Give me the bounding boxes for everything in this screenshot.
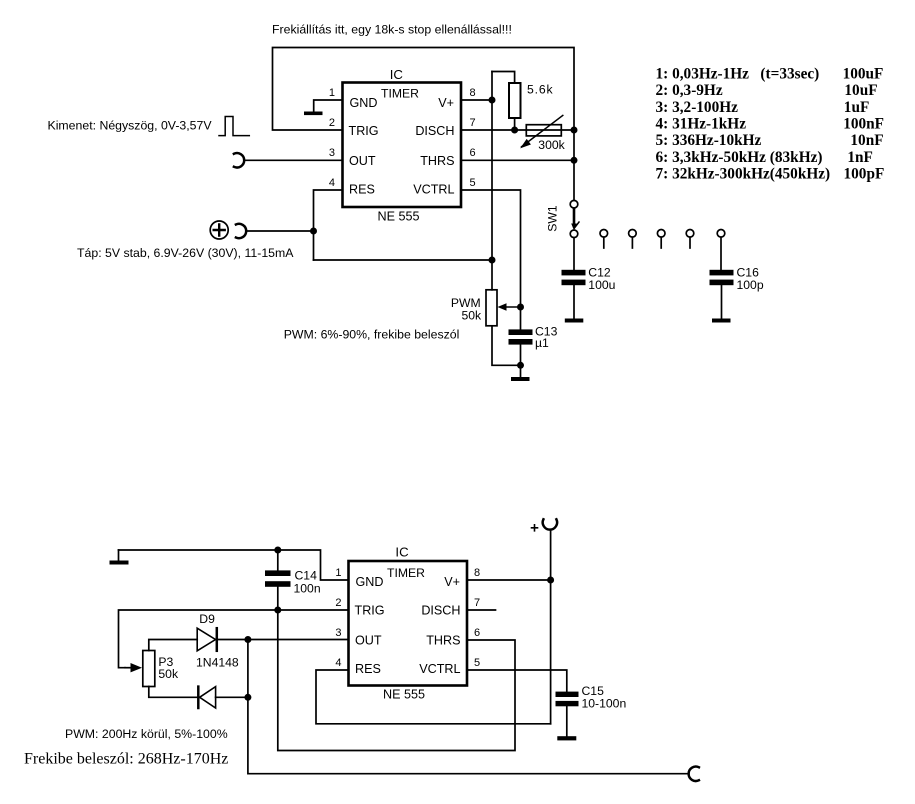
wire ground stub top-left <box>118 550 120 561</box>
svg-text:NE 555: NE 555 <box>377 210 419 224</box>
wire top rail to pin1 <box>119 550 349 580</box>
wire C16 to ground <box>721 285 723 318</box>
wire pin6 THRS to right column <box>461 159 574 161</box>
svg-text:DISCH: DISCH <box>421 604 460 618</box>
wire P3 top to D9 <box>149 640 197 651</box>
svg-text:5: 5 <box>470 177 476 189</box>
wire pad5 to C16 <box>720 237 722 270</box>
svg-text:100u: 100u <box>588 278 615 292</box>
svg-text:GND: GND <box>356 575 384 589</box>
junction V+ node <box>489 97 496 104</box>
svg-text:1: 1 <box>335 567 341 579</box>
svg-text:100pF: 100pF <box>844 166 885 183</box>
IC IC2 NE555 timer body (bottom) <box>349 561 468 686</box>
svg-text:RES: RES <box>355 662 381 676</box>
plus sign (supply) <box>532 525 538 531</box>
svg-text:VCTRL: VCTRL <box>413 183 454 197</box>
svg-text:10uF: 10uF <box>844 82 877 99</box>
ground C13 <box>511 377 530 381</box>
svg-text:100uF: 100uF <box>843 66 884 83</box>
connector pad row 3 <box>657 230 665 238</box>
diode D10 lower 1N4148 (pointing left) <box>197 687 200 708</box>
svg-text:NE 555: NE 555 <box>383 688 425 702</box>
svg-text:PWM: 6%-90%, frekibe beleszól: PWM: 6%-90%, frekibe beleszól <box>284 328 460 342</box>
potentiometer 300k body <box>526 125 561 136</box>
wire V+ column to PWM top <box>491 260 493 290</box>
svg-text:5: 336Hz-10kHz: 5: 336Hz-10kHz <box>656 132 762 149</box>
svg-text:8: 8 <box>470 87 476 99</box>
wire VCTRL column to C13 <box>520 307 522 329</box>
svg-text:µ1: µ1 <box>535 336 549 350</box>
svg-text:100n: 100n <box>294 581 321 595</box>
svg-text:4: 4 <box>329 177 335 189</box>
ground at pin1 <box>304 112 323 116</box>
svg-text:3: 3,2-100Hz: 3: 3,2-100Hz <box>656 99 739 116</box>
svg-text:D9: D9 <box>199 612 215 626</box>
junction V+ column bottom <box>489 257 496 264</box>
svg-text:V+: V+ <box>444 575 460 589</box>
svg-text:1N4148: 1N4148 <box>196 656 239 670</box>
junction TRIG node <box>274 607 281 614</box>
wire pin7 DISCH to right column <box>461 129 574 131</box>
connector bottom right (open left-half arc) <box>689 767 699 781</box>
svg-text:V+: V+ <box>438 96 454 110</box>
junction V+ node (bottom) <box>547 577 554 584</box>
svg-text:TIMER: TIMER <box>381 87 419 101</box>
svg-text:100p: 100p <box>737 278 764 292</box>
junction ground node <box>517 362 524 369</box>
svg-text:1: 0,03Hz-1Hz (t=33sec): 1: 0,03Hz-1Hz (t=33sec) <box>656 66 820 83</box>
svg-text:50k: 50k <box>461 309 482 323</box>
wire 5.6k bottom <box>514 118 516 130</box>
svg-text:IC: IC <box>390 67 404 82</box>
ground top-left <box>110 561 129 565</box>
svg-text:Frekiállítás itt, egy 18k-s st: Frekiállítás itt, egy 18k-s stop ellenál… <box>272 23 512 37</box>
svg-text:7: 32kHz-300kHz(450kHz): 7: 32kHz-300kHz(450kHz) <box>656 166 831 183</box>
svg-text:DISCH: DISCH <box>415 124 454 138</box>
junction wiper/VCTRL <box>517 304 524 311</box>
switch SW1 top contact <box>570 200 578 208</box>
svg-text:50k: 50k <box>158 667 179 681</box>
wire pin3 OUT to connector <box>244 159 342 161</box>
connector OUT (open right-half arc) <box>234 153 244 167</box>
connector supply (open right-half arc) <box>236 224 246 238</box>
IC IC1 NE555 timer body (top) <box>343 83 462 208</box>
svg-text:OUT: OUT <box>349 154 376 168</box>
connector pad row 5 <box>717 230 725 238</box>
wire SW1 to C12 <box>573 238 575 270</box>
junction D9/OUT node <box>244 636 251 643</box>
svg-text:Frekibe beleszól: 268Hz-170Hz: Frekibe beleszól: 268Hz-170Hz <box>24 751 228 768</box>
svg-text:2: 2 <box>329 117 335 129</box>
svg-text:TRIG: TRIG <box>355 604 385 618</box>
svg-text:C14: C14 <box>295 568 318 582</box>
wire TRIG left to P3 wiper <box>119 610 349 668</box>
wire pin8 V+ stub (bottom) <box>467 579 551 581</box>
svg-text:3: 3 <box>335 627 341 639</box>
wire pin1 GND stub <box>314 100 343 112</box>
ground C16 <box>712 319 731 323</box>
wire C15 to ground <box>566 706 568 736</box>
wire pin5 VCTRL to C15 <box>467 670 567 692</box>
wire C14 top stub <box>277 550 279 570</box>
wire pin8 V+ stub <box>461 99 492 101</box>
svg-text:TRIG: TRIG <box>349 124 379 138</box>
svg-text:1: 1 <box>329 87 335 99</box>
wire RES loop to V+ <box>316 670 551 724</box>
svg-text:1nF: 1nF <box>847 149 873 166</box>
svg-text:5.6k: 5.6k <box>527 83 553 97</box>
junction THRS/right column <box>571 157 578 164</box>
wire C14 bottom to TRIG <box>277 587 279 610</box>
wire supply connector to node <box>246 230 313 232</box>
svg-text:2: 0,3-9Hz: 2: 0,3-9Hz <box>656 82 723 99</box>
svg-text:10-100n: 10-100n <box>582 696 627 710</box>
wire TRIG-THRS loop <box>278 610 515 751</box>
svg-text:2: 2 <box>335 597 341 609</box>
svg-text:OUT: OUT <box>355 634 382 648</box>
wire V+ column (bottom) <box>550 530 552 724</box>
svg-text:4: 31Hz-1kHz: 4: 31Hz-1kHz <box>656 116 747 133</box>
svg-text:IC: IC <box>395 545 409 560</box>
plus circle symbol <box>210 221 228 239</box>
wire supply rail to V+ column <box>314 259 493 261</box>
connector supply top (open bottom-half arc) <box>543 519 557 529</box>
svg-text:4: 4 <box>335 657 341 669</box>
junction DISCH/5.6k <box>511 127 518 134</box>
svg-text:GND: GND <box>350 96 378 110</box>
svg-text:8: 8 <box>474 567 480 579</box>
ground C15 <box>557 736 576 740</box>
PWM wiper arrow <box>502 306 521 308</box>
capacitor C15 <box>556 692 579 697</box>
wire pin4 RES down-left <box>314 190 343 260</box>
capacitor C16 <box>710 270 734 276</box>
svg-text:6: 6 <box>470 147 476 159</box>
svg-text:5: 5 <box>474 657 480 669</box>
connector pad row 2 <box>629 230 637 238</box>
junction lower diode node <box>244 694 251 701</box>
potentiometer 300k arrow <box>522 115 563 146</box>
svg-text:THRS: THRS <box>420 154 454 168</box>
P3 wiper arrow <box>131 663 143 672</box>
svg-text:3: 3 <box>329 147 335 159</box>
svg-text:SW1: SW1 <box>546 205 560 232</box>
junction supply node <box>310 228 317 235</box>
wire D9 to OUT <box>217 639 349 641</box>
svg-text:THRS: THRS <box>426 634 460 648</box>
svg-text:VCTRL: VCTRL <box>419 662 460 676</box>
capacitor C14 <box>265 570 291 576</box>
wire C12 to ground <box>573 285 575 318</box>
wire pin5 VCTRL right and down <box>461 190 521 307</box>
svg-text:Táp: 5V stab, 6.9V-26V (30V),: Táp: 5V stab, 6.9V-26V (30V), 11-15mA <box>77 246 294 260</box>
svg-text:6: 3,3kHz-50kHz (83kHz): 6: 3,3kHz-50kHz (83kHz) <box>656 149 823 166</box>
wire C13 to ground node <box>520 345 522 377</box>
svg-text:PWM: 200Hz körül, 5%-100%: PWM: 200Hz körül, 5%-100% <box>65 727 228 741</box>
svg-text:7: 7 <box>470 117 476 129</box>
pulse waveform symbol <box>219 117 249 136</box>
svg-text:7: 7 <box>474 597 480 609</box>
potentiometer PWM 50k body <box>486 290 497 326</box>
wire feedback loop TRIG to top <box>273 48 575 201</box>
svg-text:100nF: 100nF <box>843 116 884 133</box>
ground C12 <box>565 319 584 323</box>
wire lower diode to OUT column <box>216 696 248 698</box>
switch SW1 arrow <box>573 209 576 226</box>
wire PWM bottom to ground node <box>492 326 521 366</box>
svg-text:RES: RES <box>349 183 375 197</box>
potentiometer P3 body <box>143 651 155 687</box>
diode D9 <box>197 628 215 651</box>
resistor R1 5.6k <box>509 83 521 118</box>
wire OUT column down to bottom rail <box>248 640 689 774</box>
svg-text:1uF: 1uF <box>844 99 870 116</box>
wire V+ vertical column <box>491 72 493 261</box>
svg-text:6: 6 <box>474 627 480 639</box>
wire pin7 DISCH stub (bottom) <box>467 609 496 611</box>
junction C14 top <box>274 547 281 554</box>
svg-text:300k: 300k <box>538 138 565 152</box>
capacitor C12 <box>562 270 586 276</box>
wire P3 bottom to lower diode <box>149 687 199 698</box>
svg-text:TIMER: TIMER <box>387 566 425 580</box>
svg-text:Kimenet: Négyszög, 0V-3,57V: Kimenet: Négyszög, 0V-3,57V <box>48 119 213 133</box>
connector pad row 1 <box>600 230 608 238</box>
switch SW1 bottom contact <box>570 230 578 238</box>
capacitor C13 <box>509 329 533 335</box>
wire hook to 5.6k top <box>492 72 515 84</box>
svg-text:10nF: 10nF <box>850 132 883 149</box>
connector pad row 4 <box>686 230 694 238</box>
junction DISCH/right column <box>571 127 578 134</box>
